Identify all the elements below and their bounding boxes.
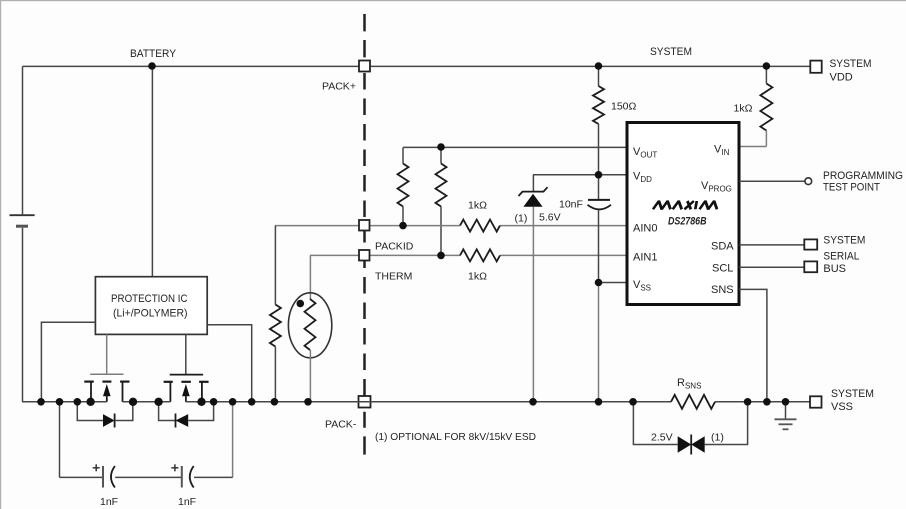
wire cap rail right drop x=232.6 bbox=[232, 402, 234, 478]
svg-text:(1): (1) bbox=[711, 432, 724, 444]
svg-text:PROGRAMMING: PROGRAMMING bbox=[823, 170, 903, 182]
dashed pack boundary line x=364.5 bbox=[363, 14, 366, 455]
svg-text:VDD: VDD bbox=[830, 71, 853, 83]
svg-text:AIN0: AIN0 bbox=[633, 223, 657, 235]
diode D2 body Q1 loop bbox=[77, 402, 133, 428]
transistor Q1 bbox=[84, 374, 129, 402]
wire VSS pin to cap y=282.5 bbox=[599, 282, 628, 284]
resistor R 1k VIN x=766.4 bbox=[739, 66, 772, 147]
svg-text:AIN1: AIN1 bbox=[633, 252, 657, 264]
terminal PACKID bbox=[359, 220, 370, 231]
resistor pullup B x=441 bbox=[436, 147, 447, 255]
resistor R 150 x=598.5 bbox=[593, 66, 604, 175]
wire VDD net y=174.8 bbox=[533, 174, 627, 176]
terminal SDA square bbox=[804, 239, 817, 249]
svg-text:SYSTEM: SYSTEM bbox=[831, 388, 874, 400]
svg-text:SYSTEM: SYSTEM bbox=[830, 58, 872, 70]
wire VPROG to test point bbox=[739, 180, 805, 182]
wire VSS stub below cap bbox=[598, 283, 600, 402]
junction dot VSS bbox=[595, 279, 603, 287]
svg-text:PACKID: PACKID bbox=[375, 241, 414, 253]
thermistor RT1 bbox=[288, 255, 331, 401]
svg-text:PROTECTION IC: PROTECTION IC bbox=[111, 293, 188, 305]
svg-text:2.5V: 2.5V bbox=[651, 432, 673, 444]
zener D1 5.6V branch x=533 bbox=[519, 175, 548, 402]
svg-text:BUS: BUS bbox=[823, 263, 846, 275]
junction dot THERM bbox=[437, 252, 445, 260]
svg-text:SDA: SDA bbox=[711, 241, 734, 253]
svg-text:1kΩ: 1kΩ bbox=[468, 271, 487, 283]
svg-text:SYSTEM: SYSTEM bbox=[650, 46, 692, 58]
wire protection IC right lead bbox=[207, 325, 252, 402]
resistor R 1k AIN0 bbox=[460, 220, 500, 232]
svg-text:PACK-: PACK- bbox=[325, 419, 357, 431]
transistor Q2 bbox=[164, 375, 209, 402]
junction dot PACKID bbox=[399, 222, 407, 230]
svg-text:10nF: 10nF bbox=[559, 199, 583, 211]
wire top rail BATTERY/SYSTEM y=66 bbox=[23, 65, 811, 67]
junction dot VOUT rail bbox=[437, 143, 445, 151]
svg-text:DS2786B: DS2786B bbox=[668, 216, 707, 228]
svg-text:VSS: VSS bbox=[831, 401, 853, 413]
svg-text:BATTERY: BATTERY bbox=[130, 48, 177, 60]
ground symbol bbox=[775, 402, 797, 430]
wire BATTERY node drop to protection IC x=152 bbox=[151, 66, 153, 276]
terminal SYSTEM VSS square bbox=[810, 396, 822, 407]
terminal THERM bbox=[359, 250, 370, 261]
wire cap bottom rail y=477 bbox=[60, 476, 233, 478]
wire battery negative drop x=22 bbox=[22, 228, 24, 402]
svg-text:1kΩ: 1kΩ bbox=[734, 103, 753, 115]
svg-text:5.6V: 5.6V bbox=[539, 212, 561, 224]
svg-text:150Ω: 150Ω bbox=[611, 101, 637, 113]
wire THERM net y=255.4 bbox=[310, 254, 627, 256]
wire SNS pin to rail bbox=[739, 289, 767, 401]
wire gate stub Q2 bbox=[185, 334, 187, 374]
junction dot VDD rail bbox=[595, 171, 603, 179]
terminal programming test point circle bbox=[805, 178, 812, 185]
resistor RSNS bbox=[671, 395, 715, 409]
diode D4 2.5V TVS loop bbox=[633, 402, 747, 455]
wire cap rail left drop x=59.5 bbox=[59, 402, 61, 478]
border frame bbox=[0, 0, 906, 1]
svg-text:1kΩ: 1kΩ bbox=[468, 200, 487, 212]
terminal PACK- bbox=[359, 396, 371, 408]
resistor R 1k AIN1 bbox=[460, 249, 500, 261]
resistor pulldown PACKID x=275 bbox=[270, 226, 281, 402]
wire PACKID net y=225.6 bbox=[275, 225, 627, 227]
capacitor C 10nF x=598.5 bbox=[588, 175, 612, 283]
diode D3 body Q2 loop bbox=[159, 402, 214, 428]
terminal PACK+ bbox=[359, 61, 370, 72]
capacitor C2 1nF bbox=[171, 464, 193, 487]
svg-text:(Li+/POLYMER): (Li+/POLYMER) bbox=[113, 308, 188, 320]
wire SDA bbox=[739, 244, 804, 246]
svg-text:SNS: SNS bbox=[711, 284, 734, 296]
svg-text:SERIAL: SERIAL bbox=[823, 251, 859, 263]
wire SCL bbox=[739, 266, 804, 268]
protection IC box bbox=[95, 277, 207, 335]
capacitor C1 1nF bbox=[93, 464, 115, 487]
svg-text:RSNS: RSNS bbox=[677, 377, 701, 391]
wire battery positive drop x=22 bbox=[22, 66, 24, 214]
terminal SCL square bbox=[804, 261, 817, 272]
logo MAXIM bbox=[653, 201, 718, 209]
wire gate stub Q1 bbox=[106, 334, 108, 374]
wire VOUT pullup rail y=147 bbox=[403, 146, 627, 148]
wire bottom PACK- rail y=401.8 bbox=[22, 401, 811, 403]
resistor pullup A x=403 bbox=[398, 147, 409, 225]
svg-text:SYSTEM: SYSTEM bbox=[823, 235, 865, 247]
svg-text:TEST POINT: TEST POINT bbox=[823, 182, 880, 194]
junction dots top rail bbox=[148, 62, 156, 70]
svg-text:(1) OPTIONAL FOR 8kV/15kV ESD: (1) OPTIONAL FOR 8kV/15kV ESD bbox=[375, 431, 536, 443]
IC U1 DS2786B bbox=[627, 123, 739, 305]
svg-text:PACK+: PACK+ bbox=[322, 81, 356, 93]
terminal SYSTEM VDD square bbox=[810, 61, 821, 73]
svg-text:(1): (1) bbox=[515, 213, 528, 225]
wire protection IC left lead bbox=[41, 322, 95, 402]
svg-text:1nF: 1nF bbox=[100, 496, 118, 508]
svg-text:1nF: 1nF bbox=[178, 496, 196, 508]
junction dots bottom rail bbox=[37, 398, 789, 406]
svg-text:SCL: SCL bbox=[712, 263, 733, 275]
battery B1 bbox=[10, 215, 35, 226]
svg-text:THERM: THERM bbox=[375, 271, 412, 283]
